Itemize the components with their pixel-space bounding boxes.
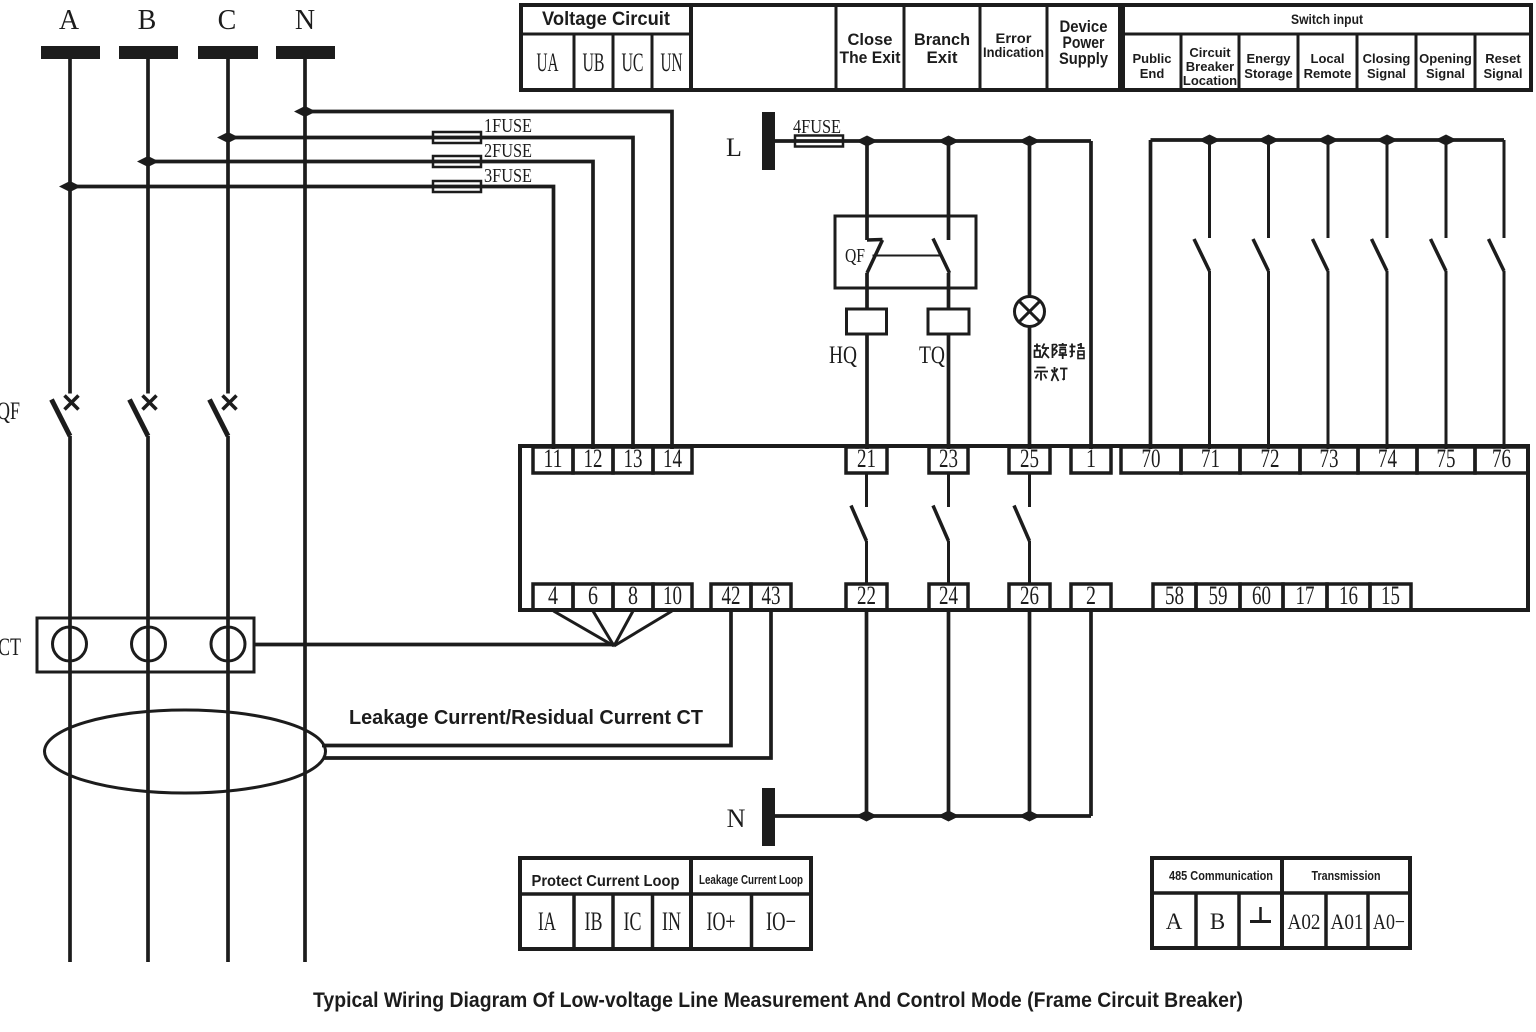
svg-text:End: End xyxy=(1140,66,1165,81)
svg-text:60: 60 xyxy=(1252,581,1271,610)
wire N return bus xyxy=(775,814,1091,818)
header table Voltage Circuit xyxy=(521,5,691,90)
svg-text:Signal: Signal xyxy=(1426,66,1465,81)
terminal 21 xyxy=(846,447,887,473)
svg-text:15: 15 xyxy=(1381,581,1400,610)
terminal 60 xyxy=(1240,584,1283,610)
svg-text:Energy: Energy xyxy=(1246,51,1291,66)
svg-text:IB: IB xyxy=(585,907,603,936)
table Protect Current Loop xyxy=(520,858,811,949)
busbar L xyxy=(762,112,775,170)
node 26 return xyxy=(1019,811,1041,822)
svg-text:6: 6 xyxy=(588,581,598,610)
header Opening Signal xyxy=(1419,51,1472,81)
header table control columns xyxy=(691,5,1120,90)
breaker aux box QF xyxy=(835,216,976,288)
svg-text:A01: A01 xyxy=(1331,909,1364,934)
terminal 8 xyxy=(613,584,653,610)
svg-text:73: 73 xyxy=(1320,444,1339,473)
wire fan to terminal 10 xyxy=(614,611,672,646)
wire fan to terminal 4 xyxy=(554,611,615,646)
coil TQ xyxy=(928,309,969,334)
fuse 1FUSE xyxy=(433,132,481,143)
header table Switch input xyxy=(1123,5,1531,90)
svg-text:76: 76 xyxy=(1492,444,1511,473)
switch input contact 71 xyxy=(1194,140,1210,449)
svg-text:485 Communication: 485 Communication xyxy=(1169,868,1273,883)
svg-text:C: C xyxy=(218,5,237,36)
terminal 6 xyxy=(573,584,613,610)
wire phase B lower xyxy=(146,436,150,962)
svg-text:25: 25 xyxy=(1020,444,1039,473)
terminal 12 xyxy=(573,447,613,473)
svg-text:Switch input: Switch input xyxy=(1291,11,1363,27)
header Branch Exit xyxy=(914,30,970,67)
svg-text:4FUSE: 4FUSE xyxy=(793,116,841,138)
terminal 59 xyxy=(1196,584,1240,610)
svg-text:TQ: TQ xyxy=(919,342,945,369)
svg-text:B: B xyxy=(1210,909,1225,934)
svg-text:Public: Public xyxy=(1132,51,1171,66)
wire terminal 24 to N xyxy=(947,610,951,816)
svg-text:A02: A02 xyxy=(1288,909,1321,934)
terminal 43 xyxy=(751,584,791,610)
terminal 17 xyxy=(1283,584,1327,610)
svg-text:4: 4 xyxy=(548,581,558,610)
terminal 13 xyxy=(613,447,653,473)
node switch 75 xyxy=(1435,135,1457,146)
svg-text:IC: IC xyxy=(624,907,642,936)
svg-text:Circuit: Circuit xyxy=(1189,45,1231,60)
wire public end 70 xyxy=(1149,140,1153,449)
svg-text:IO−: IO− xyxy=(766,907,796,936)
CT winding B xyxy=(132,627,166,661)
svg-text:Signal: Signal xyxy=(1483,66,1522,81)
svg-text:43: 43 xyxy=(762,581,781,610)
svg-text:70: 70 xyxy=(1142,444,1161,473)
label fault indicator (Chinese) xyxy=(1034,343,1085,381)
aux contact right blade xyxy=(933,239,950,274)
breaker QF pole B xyxy=(130,396,157,437)
terminal 11 xyxy=(533,447,573,473)
wire lamp to terminal 25 xyxy=(1028,327,1032,450)
fuse 2FUSE xyxy=(433,156,481,167)
svg-text:58: 58 xyxy=(1165,581,1184,610)
node switch 73 xyxy=(1317,135,1339,146)
terminal 42 xyxy=(711,584,751,610)
svg-text:Branch: Branch xyxy=(914,30,970,49)
header Energy Storage xyxy=(1244,51,1292,81)
svg-text:Voltage Circuit: Voltage Circuit xyxy=(542,9,671,30)
terminal 10 xyxy=(653,584,692,610)
wire phase A lower xyxy=(68,436,72,962)
internal contact 25-26 xyxy=(1014,473,1030,584)
fuse 4FUSE xyxy=(795,136,843,147)
busbar B xyxy=(119,46,178,59)
wire phase C upper xyxy=(226,59,230,394)
svg-text:Local: Local xyxy=(1311,51,1345,66)
terminal 23 xyxy=(929,447,968,473)
internal contact 23-24 xyxy=(933,473,949,584)
svg-text:UB: UB xyxy=(583,48,605,77)
leakage current CT ring xyxy=(45,710,326,793)
terminal 15 xyxy=(1370,584,1411,610)
wire phase N vertical xyxy=(303,59,307,962)
svg-text:A0−: A0− xyxy=(1373,909,1405,934)
svg-text:1: 1 xyxy=(1086,444,1096,473)
svg-text:42: 42 xyxy=(722,581,741,610)
terminal 26 xyxy=(1009,584,1050,610)
switch input contact 73 xyxy=(1313,140,1329,449)
terminal 25 xyxy=(1009,447,1050,473)
wire C to fuse 1FUSE xyxy=(228,138,633,450)
svg-text:Transmission: Transmission xyxy=(1312,868,1381,883)
node TQ branch xyxy=(938,136,960,147)
terminal 76 xyxy=(1475,447,1528,473)
wire phase C lower xyxy=(226,436,230,962)
switch input contact 75 xyxy=(1431,140,1447,449)
svg-text:Exit: Exit xyxy=(927,48,958,67)
node 22 return xyxy=(856,811,878,822)
svg-text:17: 17 xyxy=(1296,581,1315,610)
header Device Power Supply xyxy=(1059,17,1108,68)
wire switch-input bus xyxy=(1151,138,1505,142)
wire HQ coil to terminal 21 xyxy=(865,334,869,449)
internal contact 21-22 xyxy=(851,473,867,584)
terminal 24 xyxy=(929,584,968,610)
svg-text:26: 26 xyxy=(1020,581,1039,610)
svg-text:Typical Wiring Diagram Of Low-: Typical Wiring Diagram Of Low-voltage Li… xyxy=(313,989,1243,1012)
svg-text:11: 11 xyxy=(544,444,563,473)
svg-text:22: 22 xyxy=(857,581,876,610)
node HQ branch xyxy=(856,136,878,147)
svg-text:Storage: Storage xyxy=(1244,66,1292,81)
terminal 1 xyxy=(1071,447,1111,473)
wire A to fuse 3FUSE xyxy=(70,187,554,450)
wire phase A upper xyxy=(68,59,72,394)
svg-text:Leakage Current Loop: Leakage Current Loop xyxy=(699,873,803,887)
node lamp branch xyxy=(1019,136,1041,147)
terminal 74 xyxy=(1358,447,1417,473)
wire HQ branch upper xyxy=(865,141,869,240)
busbar N xyxy=(276,46,335,59)
terminal 71 xyxy=(1181,447,1240,473)
terminal 2 xyxy=(1071,584,1111,610)
breaker QF pole A xyxy=(52,396,79,437)
svg-text:QF: QF xyxy=(0,398,20,425)
svg-text:N: N xyxy=(727,804,746,833)
header Reset Signal xyxy=(1483,51,1522,81)
terminal 75 xyxy=(1417,447,1475,473)
svg-text:B: B xyxy=(138,5,157,36)
svg-text:IA: IA xyxy=(538,907,556,936)
svg-text:L: L xyxy=(726,133,742,162)
svg-text:CT: CT xyxy=(0,634,21,661)
svg-text:Opening: Opening xyxy=(1419,51,1472,66)
terminal 14 xyxy=(653,447,692,473)
switch input contact 74 xyxy=(1372,140,1388,449)
header Error Indication xyxy=(983,30,1044,60)
svg-text:IN: IN xyxy=(662,907,681,936)
svg-text:The Exit: The Exit xyxy=(840,48,901,67)
aux contact left blade xyxy=(867,240,883,274)
coil HQ xyxy=(847,309,887,334)
terminal 72 xyxy=(1240,447,1300,473)
node 24 return xyxy=(938,811,960,822)
wire terminal 2 to N xyxy=(1089,610,1093,816)
svg-text:UN: UN xyxy=(661,48,683,77)
svg-text:59: 59 xyxy=(1209,581,1228,610)
svg-text:12: 12 xyxy=(584,444,603,473)
node B tap xyxy=(137,156,159,167)
busbar C xyxy=(198,46,258,59)
svg-text:Location: Location xyxy=(1183,73,1237,88)
header Closing Signal xyxy=(1363,51,1411,81)
wire terminal 43 to leakage CT xyxy=(324,611,771,758)
busbar N (bottom) xyxy=(762,788,775,846)
svg-text:16: 16 xyxy=(1339,581,1358,610)
svg-text:74: 74 xyxy=(1378,444,1397,473)
svg-text:Remote: Remote xyxy=(1304,66,1352,81)
wire terminal 42 to leakage CT xyxy=(322,611,731,746)
switch input contact 76 xyxy=(1489,140,1505,449)
svg-text:N: N xyxy=(295,5,315,36)
wire TQ coil to terminal 23 xyxy=(947,334,951,449)
fault indicator lamp xyxy=(1015,297,1045,327)
svg-text:Close: Close xyxy=(848,30,893,49)
node C tap xyxy=(217,132,239,143)
svg-text:UA: UA xyxy=(537,48,559,77)
header Local Remote xyxy=(1304,51,1352,81)
switch input contact 72 xyxy=(1253,140,1269,449)
svg-text:8: 8 xyxy=(628,581,638,610)
terminal 70 xyxy=(1121,447,1181,473)
fuse 3FUSE xyxy=(433,181,481,192)
svg-text:2: 2 xyxy=(1086,581,1096,610)
busbar A xyxy=(41,46,100,59)
svg-text:QF: QF xyxy=(845,245,865,267)
header Public End xyxy=(1132,51,1171,81)
terminal 16 xyxy=(1327,584,1370,610)
node switch 72 xyxy=(1258,135,1280,146)
svg-text:HQ: HQ xyxy=(829,342,857,369)
wire to terminal 1 xyxy=(1089,141,1093,449)
svg-text:13: 13 xyxy=(624,444,643,473)
svg-text:A: A xyxy=(59,5,80,36)
wire terminal 26 to N xyxy=(1028,610,1032,816)
ground symbol xyxy=(1250,907,1271,922)
svg-text:10: 10 xyxy=(663,581,682,610)
header Circuit Breaker Location xyxy=(1183,45,1237,88)
wire right contact to TQ coil xyxy=(947,273,951,309)
aux contact linkage xyxy=(873,255,942,257)
node N tap xyxy=(294,106,316,117)
svg-text:3FUSE: 3FUSE xyxy=(484,165,532,187)
svg-text:23: 23 xyxy=(939,444,958,473)
node switch 74 xyxy=(1376,135,1398,146)
table 485 Communication xyxy=(1152,858,1410,948)
terminal 4 xyxy=(533,584,573,610)
breaker QF pole C xyxy=(210,396,237,437)
svg-text:24: 24 xyxy=(939,581,958,610)
svg-text:75: 75 xyxy=(1437,444,1456,473)
terminal 73 xyxy=(1300,447,1358,473)
wire fan to terminal 8 xyxy=(614,611,633,646)
wire terminal 22 to N xyxy=(865,610,869,816)
device outline xyxy=(520,446,1528,610)
svg-text:IO+: IO+ xyxy=(707,907,736,936)
CT winding C xyxy=(211,627,245,661)
current transformer CT box xyxy=(37,618,254,672)
svg-text:Indication: Indication xyxy=(983,44,1044,60)
svg-text:UC: UC xyxy=(622,48,644,77)
svg-text:14: 14 xyxy=(663,444,682,473)
svg-text:2FUSE: 2FUSE xyxy=(484,140,532,162)
svg-text:1FUSE: 1FUSE xyxy=(484,115,532,137)
svg-text:Protect Current Loop: Protect Current Loop xyxy=(532,873,680,890)
svg-text:Supply: Supply xyxy=(1059,49,1108,68)
wire B to fuse 2FUSE xyxy=(148,162,593,450)
svg-text:Signal: Signal xyxy=(1367,66,1406,81)
terminal 58 xyxy=(1153,584,1196,610)
node A tap xyxy=(59,181,81,192)
svg-text:A: A xyxy=(1166,909,1183,934)
wire fan to terminal 6 xyxy=(593,611,614,646)
svg-text:21: 21 xyxy=(857,444,876,473)
header Close The Exit xyxy=(840,30,901,67)
wire CT secondary xyxy=(254,643,614,647)
CT winding A xyxy=(53,627,87,661)
svg-text:71: 71 xyxy=(1201,444,1220,473)
wire N to UN terminal xyxy=(305,112,672,450)
svg-text:Reset: Reset xyxy=(1485,51,1521,66)
node switch 71 xyxy=(1199,135,1221,146)
wire lamp branch upper xyxy=(1028,141,1032,297)
svg-text:Closing: Closing xyxy=(1363,51,1411,66)
svg-text:72: 72 xyxy=(1261,444,1280,473)
wire TQ branch upper xyxy=(947,141,951,240)
wire phase B upper xyxy=(146,59,150,394)
wire left contact to HQ coil xyxy=(865,273,869,309)
wire L bus xyxy=(775,139,1091,143)
terminal 22 xyxy=(846,584,887,610)
svg-text:Leakage Current/Residual Curre: Leakage Current/Residual Current CT xyxy=(349,707,703,729)
svg-text:Breaker: Breaker xyxy=(1186,59,1234,74)
